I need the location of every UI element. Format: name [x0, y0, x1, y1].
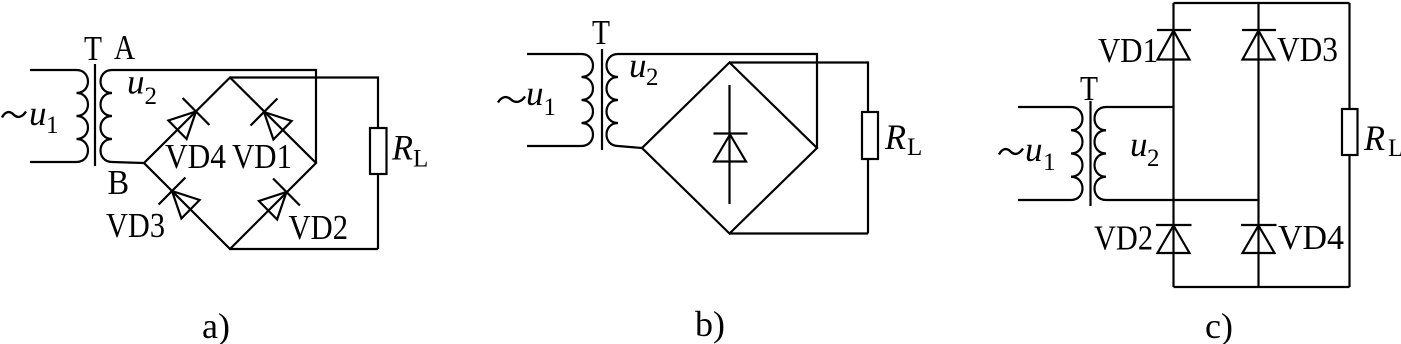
bridge diamond (a) [144, 78, 316, 250]
transformer T secondary winding (b) [607, 54, 618, 146]
svg-text:1: 1 [46, 112, 59, 139]
transformer T secondary winding (c) [1095, 107, 1106, 200]
wire secondary bottom to right rail (c) [1106, 199, 1259, 201]
svg-text:u: u [1130, 125, 1148, 164]
wire RL branch top (c) [1348, 3, 1350, 109]
resistor RL (c) [1342, 109, 1358, 155]
svg-text:VD3: VD3 [1277, 30, 1338, 69]
svg-text:L: L [907, 134, 922, 161]
wire RL branch bottom (c) [1348, 155, 1350, 287]
svg-text:R: R [391, 128, 413, 168]
diode VD1 (c) [1157, 30, 1191, 60]
svg-text:T: T [84, 29, 102, 68]
svg-text:A: A [114, 28, 136, 67]
wire node B to bridge left vertex (a) [112, 162, 144, 163]
diode VD2 (c) [1156, 225, 1192, 253]
svg-text:a): a) [202, 306, 230, 344]
label ~u1 (c) [999, 130, 1056, 176]
svg-text:VD3: VD3 [106, 206, 165, 245]
svg-text:VD1: VD1 [1098, 31, 1158, 70]
svg-text:u: u [1025, 130, 1043, 169]
svg-text:VD4: VD4 [165, 137, 226, 176]
wire bridge plus output to RL top (b) [730, 63, 869, 113]
diode VD1 [251, 99, 292, 140]
transformer T secondary winding (a) [101, 70, 112, 162]
label u2 (a) [127, 63, 157, 111]
wire node A to bridge right vertex (a) [112, 70, 316, 163]
svg-text:2: 2 [145, 83, 158, 110]
label ~u1 (b) [498, 74, 556, 121]
svg-text:T: T [592, 13, 610, 52]
diode VD2 [259, 179, 300, 220]
svg-text:L: L [1388, 135, 1401, 162]
svg-text:u: u [526, 74, 544, 113]
label u2 (b) [629, 46, 659, 91]
label ~u1 (a) [2, 94, 59, 139]
svg-text:u: u [29, 94, 47, 133]
diode VD4 (c) [1241, 225, 1277, 253]
right bridge rail (c) [1257, 3, 1259, 287]
transformer T core (c) [1089, 101, 1091, 206]
svg-text:VD1: VD1 [232, 137, 292, 176]
label RL (a) [391, 128, 428, 173]
wire bridge plus output to RL top (a) [230, 78, 378, 129]
diode VD3 (c) [1242, 30, 1276, 60]
wire secondary top to bridge right vertex (b) [618, 54, 817, 148]
label u2 (c) [1130, 125, 1160, 172]
top wire (c) [1174, 2, 1350, 4]
wire bridge minus output bottom (b) [730, 232, 868, 234]
svg-text:u: u [127, 63, 145, 102]
wire RL bottom (b) [867, 159, 869, 234]
wire bridge minus output bottom (a) [230, 248, 378, 250]
svg-text:b): b) [695, 304, 725, 344]
svg-text:1: 1 [544, 94, 557, 121]
transformer T core (b) [601, 49, 603, 150]
bridge block diode symbol (b) [714, 85, 748, 204]
transformer T primary winding (a) [30, 70, 88, 162]
bridge diamond (b) [642, 63, 817, 234]
svg-text:VD4: VD4 [1278, 218, 1344, 257]
resistor RL (b) [862, 112, 878, 159]
svg-text:c): c) [1205, 306, 1233, 344]
transformer T core (a) [94, 64, 96, 166]
left bridge rail (c) [1172, 3, 1174, 287]
wire secondary top to left rail (c) [1106, 106, 1174, 108]
svg-text:R: R [884, 117, 906, 157]
svg-text:1: 1 [1043, 149, 1056, 176]
svg-text:2: 2 [1147, 145, 1160, 172]
wire RL bottom (a) [377, 174, 379, 249]
transformer T primary winding (b) [527, 54, 593, 146]
svg-text:R: R [1363, 118, 1385, 158]
svg-text:u: u [629, 46, 647, 85]
svg-text:VD2: VD2 [289, 208, 349, 247]
svg-text:B: B [108, 163, 130, 202]
svg-text:2: 2 [646, 64, 659, 91]
svg-text:VD2: VD2 [1094, 219, 1153, 258]
label RL (b) [884, 117, 922, 161]
wire secondary bottom to bridge left vertex (b) [618, 146, 642, 148]
svg-text:T: T [1080, 69, 1098, 108]
diode VD3 [159, 178, 200, 219]
label RL (c) [1363, 118, 1401, 162]
bottom wire (c) [1174, 286, 1350, 288]
transformer T primary winding (c) [1018, 107, 1082, 200]
resistor RL (a) [370, 128, 387, 174]
diode VD4 [168, 98, 209, 139]
svg-text:L: L [413, 146, 428, 173]
